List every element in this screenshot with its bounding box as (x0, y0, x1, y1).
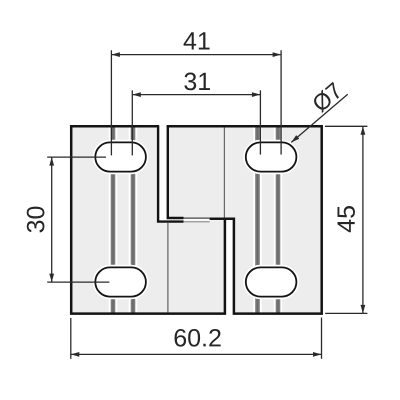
dim 30 text (27, 207, 45, 233)
dim 30 arrow bottom (49, 274, 54, 283)
leader arrow (291, 135, 299, 142)
groove band 1 (109, 127, 118, 312)
dim 45 arrow top (361, 126, 366, 135)
dim 60.2 line (71, 353, 322, 355)
dim 30 extension line bottom (47, 281, 109, 283)
dim 60.2 arrow right (313, 352, 322, 357)
dim 31 arrow left (132, 92, 141, 97)
dim 31 arrow right (252, 92, 261, 97)
thin seam t1 (right leaf inner edge above step) (223, 127, 225, 217)
dim 60.2 arrow left (71, 352, 80, 357)
dim 30 line (51, 157, 53, 282)
slot hole bottom-right (246, 267, 297, 296)
gap channel vertical white bottom (226, 220, 232, 316)
dim 31 extension line left (131, 90, 133, 155)
dim 60.2 extension line right (321, 318, 323, 359)
dim 41 arrow right (273, 52, 282, 57)
right leaf outline (167, 126, 322, 313)
dim 60.2 extension line left (70, 318, 72, 359)
dim 31 line (132, 94, 260, 96)
gap channel white sliver (158, 219, 227, 220)
dim 41 extension line left (110, 50, 112, 155)
dim 45 arrow bottom (361, 305, 366, 314)
step left outer edge v1+h2 (158, 125, 183, 221)
groove band 3 (253, 127, 262, 312)
dim 45 line (362, 126, 364, 313)
gap channel vertical white top (159, 124, 166, 221)
dim 31 text (184, 73, 210, 91)
left leaf outline (71, 126, 225, 313)
thin seam t3 (middle upper) (184, 217, 210, 219)
dim 41 extension line right (280, 50, 282, 154)
step left inner edge v2+h1 (168, 125, 184, 218)
slot hole top-right (246, 142, 297, 171)
dim 41 text (184, 32, 210, 49)
dim 45 text (338, 206, 355, 232)
groove band 2 (129, 127, 138, 312)
diameter 7 text (311, 81, 344, 113)
dim 41 arrow left (111, 52, 120, 57)
groove band 4 (274, 127, 283, 312)
dim 30 extension line top (47, 156, 106, 158)
dim 45 extension line bottom (325, 312, 367, 314)
dim 41 line (111, 54, 281, 56)
slot hole bottom-left (95, 267, 146, 296)
thin seam t2 (below step) (167, 223, 169, 313)
thin seam t4 (middle lower) (184, 221, 210, 223)
part body fill (70, 125, 323, 315)
leader line diameter 7 (291, 94, 347, 142)
dim 60.2 text (175, 329, 221, 347)
slot hole top-left (95, 142, 146, 171)
dim 30 arrow top (49, 157, 54, 166)
dim 45 extension line top (325, 125, 367, 127)
dim 31 extension line right (259, 90, 261, 154)
